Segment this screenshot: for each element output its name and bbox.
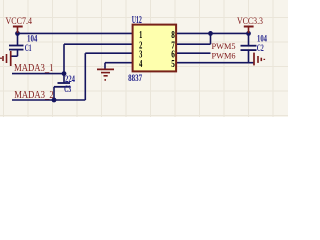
svg-text:C3: C3	[64, 85, 71, 95]
svg-text:U12: U12	[132, 15, 142, 26]
svg-text:104: 104	[257, 34, 267, 44]
svg-text:8: 8	[171, 30, 175, 41]
svg-text:8837: 8837	[128, 74, 142, 84]
svg-text:5: 5	[171, 59, 175, 70]
svg-text:MADA3_1: MADA3_1	[14, 63, 54, 74]
svg-text:VCC7.4: VCC7.4	[6, 17, 33, 27]
svg-text:VCC3.3: VCC3.3	[237, 17, 263, 27]
svg-text:PWM5: PWM5	[212, 42, 236, 51]
svg-text:224: 224	[65, 75, 75, 85]
svg-text:PWM6: PWM6	[212, 51, 236, 60]
svg-text:MADA3_2: MADA3_2	[14, 90, 54, 101]
svg-text:4: 4	[139, 59, 142, 70]
svg-text:C2: C2	[257, 44, 264, 54]
svg-text:C1: C1	[25, 44, 32, 54]
svg-text:1: 1	[139, 30, 142, 41]
